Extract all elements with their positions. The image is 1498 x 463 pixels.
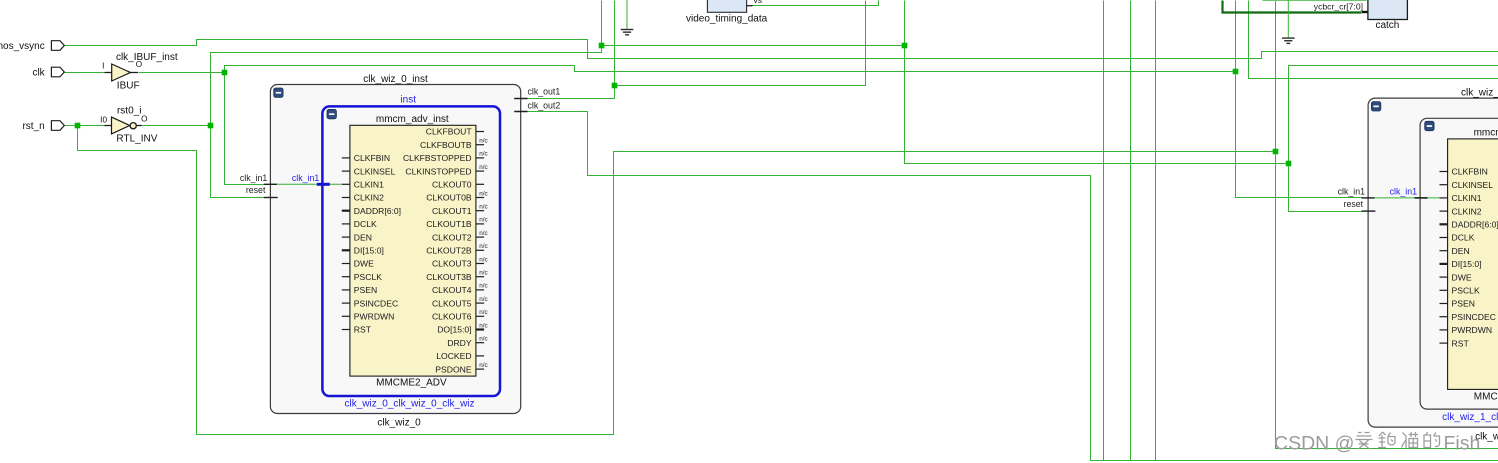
pin LOCKED of U_0	[436, 351, 484, 361]
svg-text:clk_in1: clk_in1	[240, 173, 267, 183]
wire vertical net A	[1103, 1, 1105, 461]
pin CLKINSTOPPED of U_0	[405, 164, 487, 176]
svg-text:n/c: n/c	[479, 296, 487, 303]
svg-text:PWRDWN: PWRDWN	[1452, 325, 1493, 335]
svg-text:mmcm_adv_inst: mmcm_adv_inst	[1474, 128, 1498, 139]
svg-text:clk_wiz_0: clk_wiz_0	[377, 418, 421, 429]
pin PSINCDEC of U_0	[342, 298, 398, 308]
svg-text:O: O	[136, 60, 142, 69]
svg-text:CLKFBIN: CLKFBIN	[1452, 167, 1488, 177]
pin CLKFBOUT of U_0	[426, 127, 484, 137]
svg-text:CLKOUT3: CLKOUT3	[432, 259, 472, 269]
svg-text:clk_wiz_0_inst: clk_wiz_0_inst	[363, 74, 428, 85]
svg-text:DI[15:0]: DI[15:0]	[1452, 259, 1482, 269]
port clk	[32, 67, 64, 78]
svg-text:DADDR[6:0]: DADDR[6:0]	[1452, 220, 1498, 230]
pin CLKOUT5 of U_0	[432, 296, 488, 308]
wrapper pin reset of clk_wiz_0_inst	[246, 185, 278, 197]
ground symbol left	[621, 0, 634, 35]
svg-text:reset: reset	[246, 185, 266, 195]
svg-text:clk_in1: clk_in1	[292, 173, 319, 183]
junction clk_out1 junction	[612, 83, 618, 89]
svg-text:RST: RST	[354, 325, 372, 335]
pin DWE of U_1	[1440, 272, 1472, 282]
wire vertical net C	[1155, 1, 1157, 461]
wrapper pin clk_in1 of clk_wiz_1_inst	[1338, 187, 1375, 198]
ground symbol right	[1282, 0, 1295, 43]
svg-text:CLKFBIN: CLKFBIN	[354, 153, 390, 163]
collapse icon of inst	[327, 109, 336, 118]
svg-text:DI[15:0]: DI[15:0]	[354, 246, 384, 256]
svg-text:inst: inst	[400, 94, 416, 105]
svg-text:PSCLK: PSCLK	[354, 272, 382, 282]
junction rst_n junction B	[1273, 149, 1279, 155]
svg-text:DWE: DWE	[354, 259, 374, 269]
svg-text:DADDR[6:0]: DADDR[6:0]	[354, 206, 401, 216]
svg-text:I0: I0	[100, 115, 107, 124]
wire clk_out1 net	[528, 1, 866, 99]
svg-text:n/c: n/c	[479, 270, 487, 277]
pin DWE of U_0	[342, 259, 374, 269]
svg-text:cmos_vsync: cmos_vsync	[0, 41, 45, 52]
svg-text:PSEN: PSEN	[1452, 299, 1475, 309]
svg-text:clk_out2: clk_out2	[528, 101, 561, 111]
pin PSDONE of U_0	[435, 362, 487, 374]
svg-text:n/c: n/c	[479, 309, 487, 316]
svg-text:clk_wiz_1_clk_wiz_1_clk_wiz: clk_wiz_1_clk_wiz_1_clk_wiz	[1442, 412, 1498, 423]
net clk_in1 inside wrapper (wire into CLKIN1)	[277, 173, 342, 184]
pin CLKOUT2 of U_0	[432, 230, 488, 242]
svg-text:CLKOUT5: CLKOUT5	[432, 298, 472, 308]
bus ycbcr_cr[7:0] to catch	[1223, 1, 1362, 13]
svg-text:CLKINSEL: CLKINSEL	[1452, 180, 1494, 190]
svg-text:PWRDWN: PWRDWN	[354, 312, 395, 322]
svg-text:n/c: n/c	[479, 164, 487, 171]
svg-text:MMCME2_ADV: MMCME2_ADV	[1474, 391, 1498, 402]
wire rst0_i inverted reset net	[142, 125, 211, 127]
svg-text:reset: reset	[1344, 199, 1364, 209]
wire stub top right	[1263, 0, 1367, 2]
pin CLKFBOUTB of U_0	[420, 138, 488, 150]
pin CLKOUT1 of U_0	[432, 204, 488, 216]
pin CLKOUT3B of U_0	[426, 270, 487, 282]
pin DI[15:0] of U_1	[1440, 259, 1482, 269]
pin DADDR[6:0] of U_1	[1440, 220, 1498, 230]
svg-text:DRDY: DRDY	[447, 338, 472, 348]
pin DI[15:0] of U_0	[342, 246, 384, 256]
junction rst0 junction C	[902, 43, 908, 49]
svg-text:DEN: DEN	[1452, 246, 1470, 256]
wire clk_out2 net	[528, 112, 1498, 461]
pin DADDR[6:0] of U_0	[342, 206, 401, 216]
svg-text:clk_in1: clk_in1	[1338, 187, 1365, 197]
svg-text:IBUF: IBUF	[117, 80, 140, 91]
svg-text:RTL_INV: RTL_INV	[116, 133, 157, 144]
pin DO[15:0] of U_0	[437, 322, 487, 334]
svg-text:RST: RST	[1452, 338, 1470, 348]
collapse icon of inst	[1425, 121, 1434, 130]
pin CLKFBIN of U_1	[1440, 167, 1488, 177]
pin CLKOUT2B of U_0	[426, 243, 487, 255]
pin CLKOUT3 of U_0	[432, 256, 488, 268]
pin CLKIN1 of U_0	[342, 180, 384, 190]
wrapper pin clk_in1 of clk_wiz_0_inst	[240, 173, 277, 184]
svg-text:PSCLK: PSCLK	[1452, 286, 1480, 296]
pin CLKFBSTOPPED of U_0	[403, 151, 488, 163]
svg-text:CLKOUT1B: CLKOUT1B	[426, 219, 472, 229]
svg-text:CLKOUT2: CLKOUT2	[432, 232, 472, 242]
pin CLKIN2 of U_1	[1440, 206, 1482, 216]
buffer IBUF clk_IBUF_inst	[102, 52, 178, 91]
svg-text:n/c: n/c	[479, 204, 487, 211]
svg-text:CLKOUT1: CLKOUT1	[432, 206, 472, 216]
pin CLKINSEL of U_0	[342, 166, 396, 176]
port cmos_vsync	[0, 41, 64, 52]
svg-text:CLKIN2: CLKIN2	[354, 193, 384, 203]
pin CLKOUT0 of U_0	[432, 180, 484, 190]
pin CLKIN1 of U_1	[1440, 193, 1482, 203]
svg-text:CLKIN1: CLKIN1	[1452, 193, 1482, 203]
svg-text:CLKINSTOPPED: CLKINSTOPPED	[405, 166, 471, 176]
wire vertical net B	[1130, 1, 1132, 461]
svg-text:rst0_i: rst0_i	[117, 105, 141, 116]
svg-text:mmcm_adv_inst: mmcm_adv_inst	[376, 114, 449, 125]
svg-text:DCLK: DCLK	[1452, 233, 1475, 243]
svg-text:n/c: n/c	[479, 138, 487, 145]
pin CLKOUT6 of U_0	[432, 309, 488, 321]
svg-text:CLKINSEL: CLKINSEL	[354, 166, 396, 176]
wire net D from top to right edge	[1249, 1, 1498, 79]
svg-text:vs: vs	[754, 0, 763, 5]
svg-text:n/c: n/c	[479, 243, 487, 250]
svg-text:n/c: n/c	[479, 362, 487, 369]
svg-text:clk_wiz_1_inst: clk_wiz_1_inst	[1461, 87, 1498, 98]
pin DEN of U_1	[1440, 246, 1470, 256]
svg-text:CLKOUT0: CLKOUT0	[432, 180, 472, 190]
svg-text:I: I	[102, 61, 104, 70]
watermark CSDN	[1274, 432, 1480, 455]
wire clk port to IBUF input	[65, 72, 105, 74]
pin RST of U_0	[342, 325, 372, 335]
hierarchical block inst (clk_wiz wrapper, blue)	[1420, 118, 1498, 423]
svg-text:n/c: n/c	[479, 151, 487, 158]
svg-text:MMCME2_ADV: MMCME2_ADV	[376, 378, 447, 389]
svg-text:CLKOUT0B: CLKOUT0B	[426, 193, 472, 203]
svg-text:DEN: DEN	[354, 232, 372, 242]
svg-text:CLKFBOUTB: CLKFBOUTB	[420, 140, 472, 150]
pin PSEN of U_1	[1440, 299, 1475, 309]
svg-text:PSEN: PSEN	[354, 285, 377, 295]
pin PWRDWN of U_0	[342, 312, 395, 322]
pin PSEN of U_0	[342, 285, 377, 295]
port rst_n	[22, 121, 64, 132]
svg-text:CLKOUT3B: CLKOUT3B	[426, 272, 472, 282]
collapse icon of clk_wiz_0_inst	[274, 88, 283, 97]
svg-text:video_timing_data: video_timing_data	[686, 13, 768, 24]
svg-text:PSINCDEC: PSINCDEC	[1452, 312, 1496, 322]
svg-text:clk_wiz_0_clk_wiz_0_clk_wiz: clk_wiz_0_clk_wiz_0_clk_wiz	[344, 399, 474, 410]
svg-text:CLKFBSTOPPED: CLKFBSTOPPED	[403, 153, 472, 163]
svg-text:n/c: n/c	[479, 190, 487, 197]
pin PSCLK of U_0	[342, 272, 382, 282]
pin CLKOUT4 of U_0	[432, 283, 488, 295]
block catch	[1368, 0, 1408, 31]
pin PSINCDEC of U_1	[1440, 312, 1496, 322]
junction rst0 junction B	[599, 43, 605, 49]
pin CLKIN2 of U_0	[342, 193, 384, 203]
svg-text:clk_out1: clk_out1	[528, 87, 561, 97]
svg-text:CSDN @: CSDN @	[1274, 433, 1354, 455]
svg-text:n/c: n/c	[479, 217, 487, 224]
svg-text:ycbcr_cr[7:0]: ycbcr_cr[7:0]	[1314, 2, 1363, 12]
svg-text:n/c: n/c	[479, 256, 487, 263]
net clk_in1 inside wrapper (wire into CLKIN1)	[1375, 187, 1440, 198]
junction clk junction B	[1233, 69, 1239, 75]
wrapper pin clk_out1 of clk_wiz_0_inst	[514, 87, 560, 99]
pin CLKINSEL of U_1	[1440, 180, 1494, 190]
svg-text:CLKOUT6: CLKOUT6	[432, 312, 472, 322]
svg-text:PSDONE: PSDONE	[435, 364, 472, 374]
svg-text:n/c: n/c	[479, 230, 487, 237]
pin DRDY of U_0	[447, 336, 487, 348]
svg-text:CLKFBOUT: CLKFBOUT	[426, 127, 473, 137]
svg-text:n/c: n/c	[479, 283, 487, 290]
junction rst0 junction	[208, 123, 214, 129]
pin PSCLK of U_1	[1440, 286, 1480, 296]
svg-text:O: O	[141, 115, 147, 124]
svg-text:CLKIN2: CLKIN2	[1452, 206, 1482, 216]
svg-text:LOCKED: LOCKED	[436, 351, 471, 361]
svg-text:CLKOUT2B: CLKOUT2B	[426, 246, 472, 256]
svg-text:DWE: DWE	[1452, 272, 1472, 282]
pin CLKOUT1B of U_0	[426, 217, 487, 229]
hierarchical block clk_wiz_1_inst (outer wrapper)	[1368, 87, 1498, 442]
wire vs net from video_timing_data	[753, 1, 879, 6]
pin vs of video_timing_data	[747, 0, 762, 6]
wire cmos_vsync net	[65, 40, 1498, 59]
junction rst0 junction D	[1286, 161, 1292, 167]
block video_timing_data	[686, 0, 768, 24]
svg-text:DCLK: DCLK	[354, 219, 377, 229]
svg-text:PSINCDEC: PSINCDEC	[354, 298, 398, 308]
svg-text:DO[15:0]: DO[15:0]	[437, 325, 471, 335]
collapse icon of clk_wiz_1_inst	[1371, 102, 1380, 111]
svg-text:Fish: Fish	[1444, 433, 1481, 455]
svg-text:catch: catch	[1375, 20, 1399, 31]
primitive MMCME2_ADV mmcm_adv_inst (yellow)	[350, 114, 476, 389]
svg-text:n/c: n/c	[479, 322, 487, 329]
svg-text:rst_n: rst_n	[22, 121, 44, 132]
svg-text:CLKIN1: CLKIN1	[354, 180, 384, 190]
wire clk_IBUF net (IBUF out to clk_wiz blocks)	[139, 72, 225, 74]
pin DCLK of U_1	[1440, 233, 1475, 243]
wrapper pin reset of clk_wiz_1_inst	[1344, 199, 1376, 211]
junction rst_n junction	[75, 123, 81, 129]
pin PWRDWN of U_1	[1440, 325, 1493, 335]
junction clk junction	[222, 70, 228, 76]
svg-text:clk: clk	[32, 68, 45, 79]
svg-text:CLKOUT4: CLKOUT4	[432, 285, 472, 295]
pin CLKFBIN of U_0	[342, 153, 390, 163]
pin CLKOUT0B of U_0	[426, 190, 487, 202]
inverter RTL_INV rst0_i	[100, 105, 158, 144]
wrapper pin clk_out2 of clk_wiz_0_inst	[514, 101, 560, 112]
svg-text:clk_IBUF_inst: clk_IBUF_inst	[116, 52, 178, 63]
pin RST of U_1	[1440, 338, 1470, 348]
hierarchical block clk_wiz_0_inst (outer wrapper)	[270, 74, 520, 429]
hierarchical block inst (clk_wiz wrapper, blue)	[322, 94, 500, 409]
primitive MMCME2_ADV mmcm_adv_inst (yellow)	[1448, 128, 1498, 403]
pin DEN of U_0	[342, 232, 372, 242]
pin DCLK of U_0	[342, 219, 377, 229]
svg-text:n/c: n/c	[479, 336, 487, 343]
wire rst_n net	[65, 125, 105, 127]
svg-text:clk_in1: clk_in1	[1390, 187, 1417, 197]
